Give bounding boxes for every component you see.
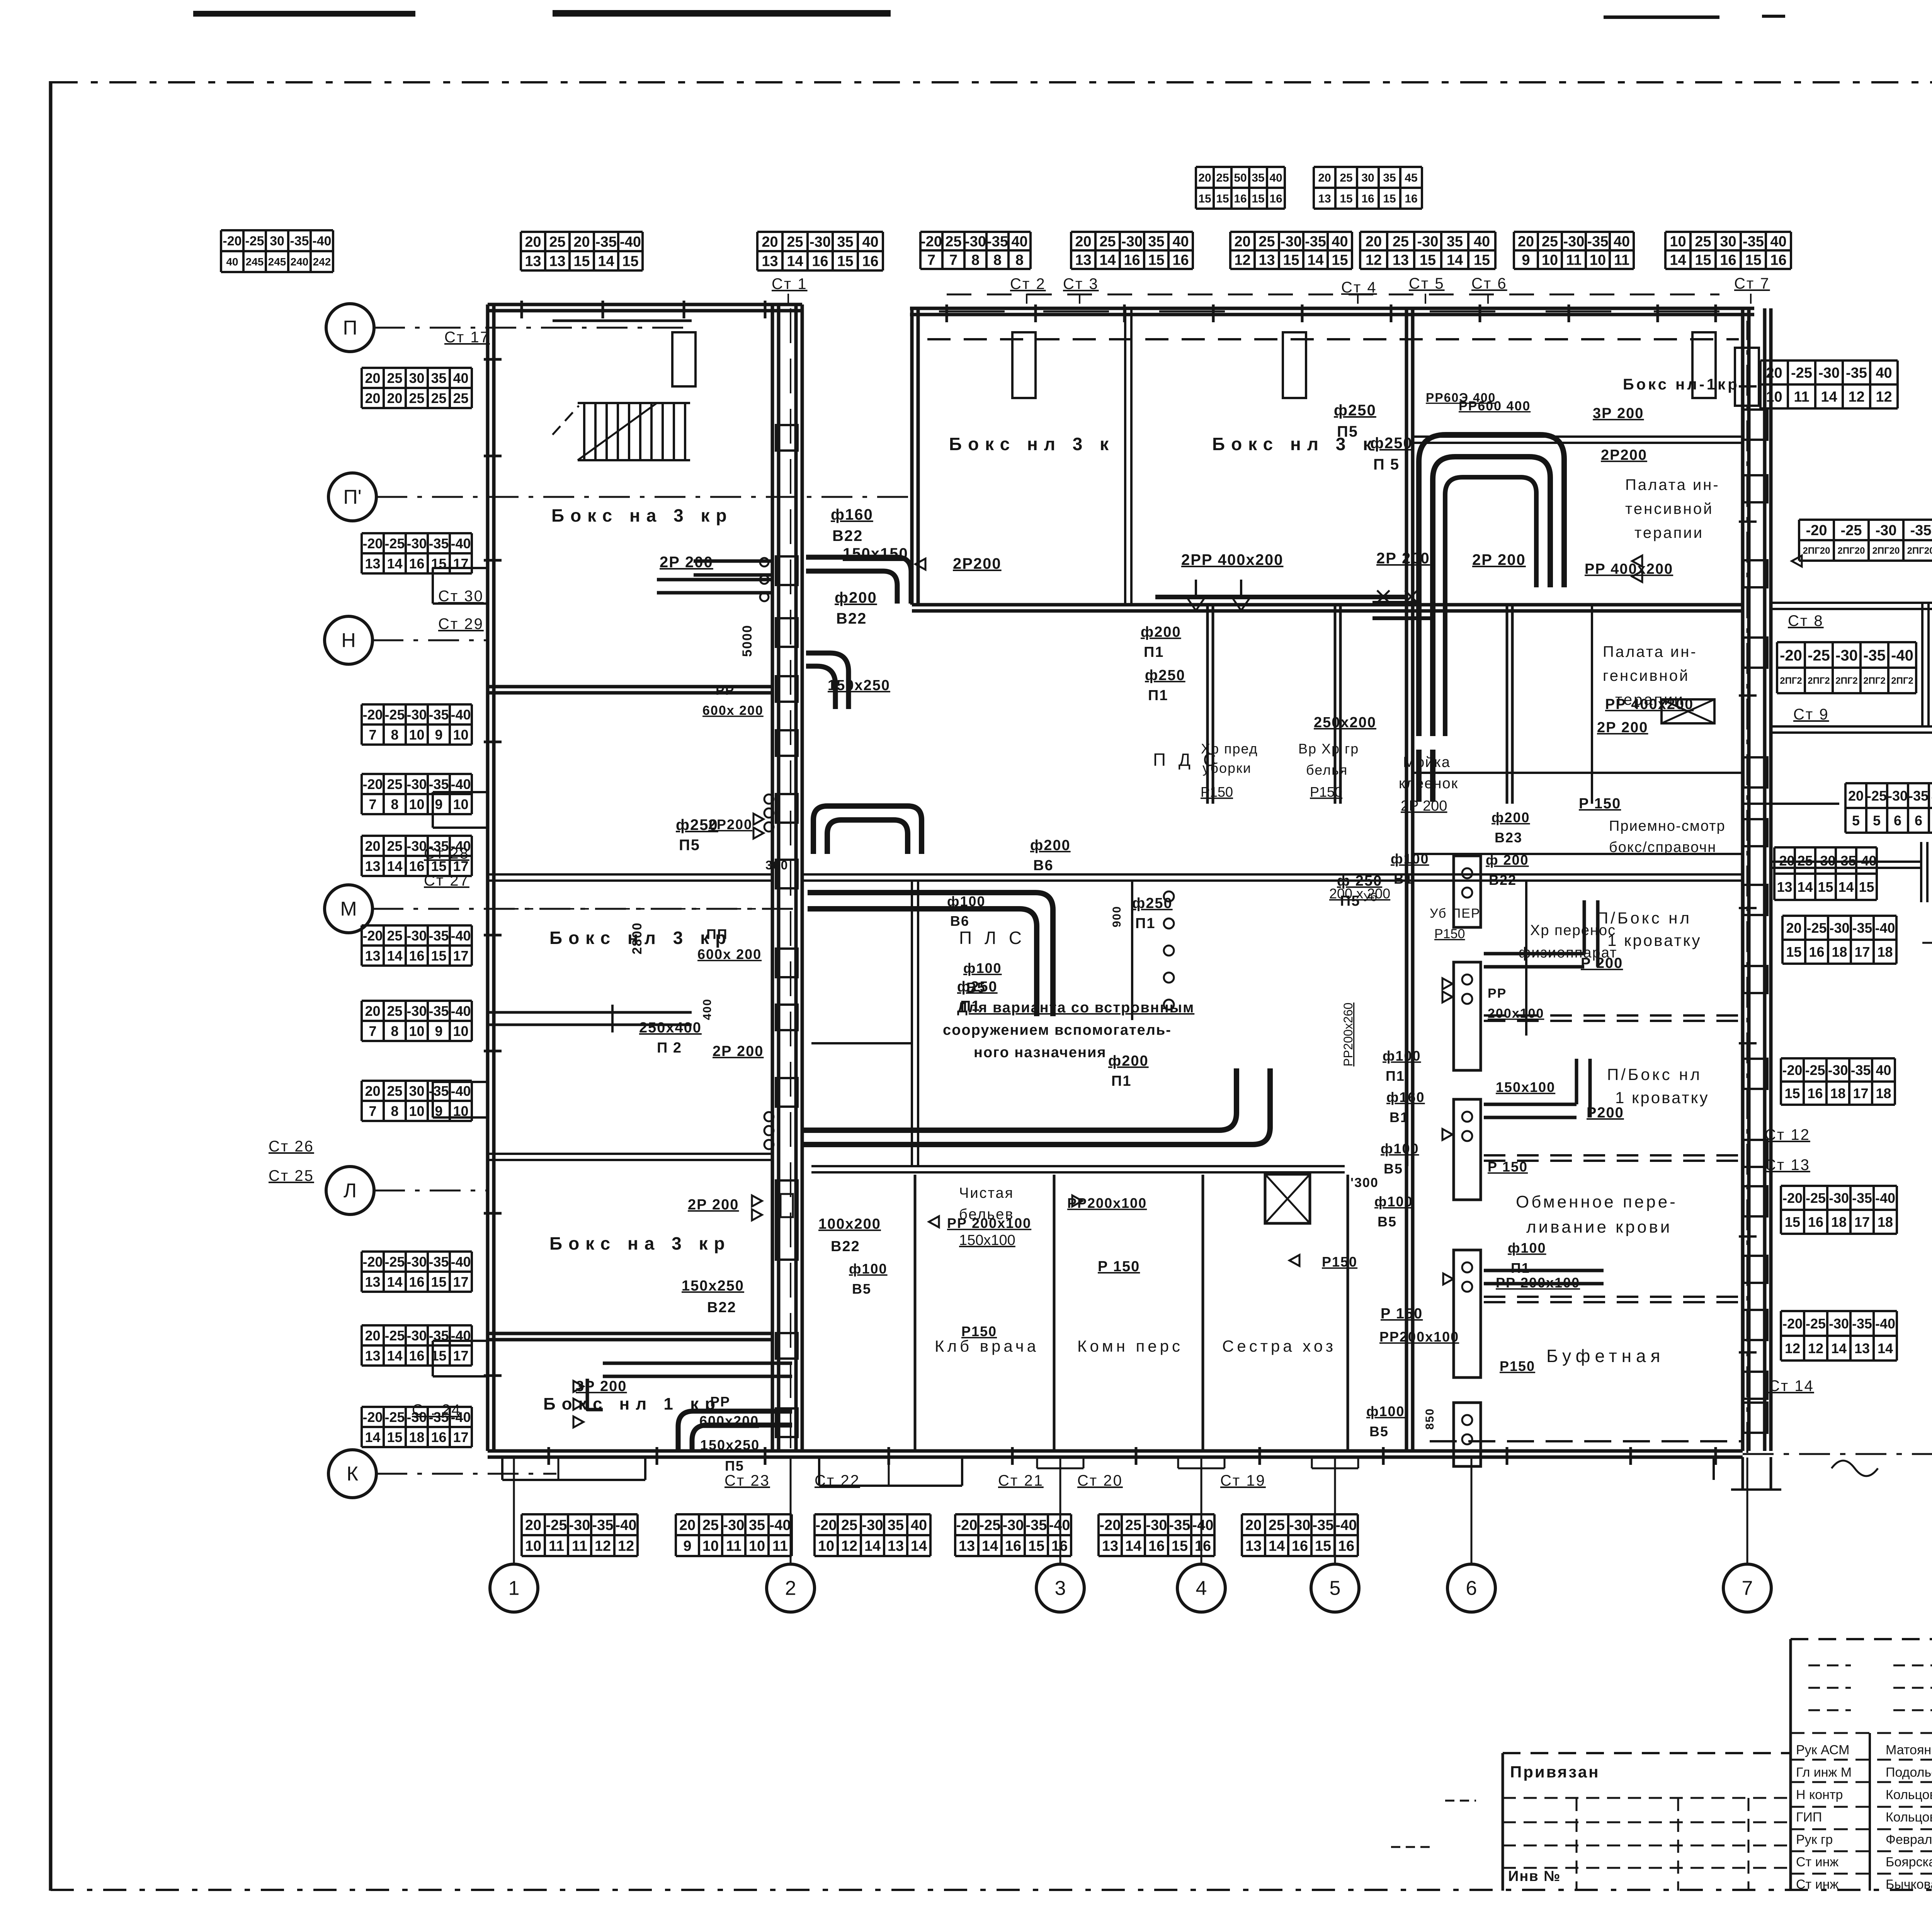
svg-text:П5: П5	[1340, 893, 1360, 909]
svg-text:2Р 200: 2Р 200	[713, 1043, 764, 1060]
svg-text:20: 20	[365, 838, 380, 854]
svg-text:терапии: терапии	[1634, 524, 1704, 541]
svg-text:25: 25	[409, 390, 424, 406]
svg-text:25: 25	[1340, 172, 1352, 184]
svg-text:-30: -30	[1121, 234, 1143, 250]
svg-text:-30: -30	[965, 234, 986, 250]
svg-text:20: 20	[1198, 172, 1211, 184]
svg-text:40: 40	[1172, 234, 1189, 250]
svg-text:16: 16	[409, 948, 424, 964]
svg-text:150х100: 150х100	[959, 1232, 1015, 1248]
svg-text:Уб: Уб	[1363, 891, 1377, 904]
svg-text:-20: -20	[1774, 853, 1794, 869]
svg-text:25: 25	[945, 234, 961, 250]
svg-text:250х400: 250х400	[639, 1020, 702, 1036]
svg-text:-40: -40	[1875, 920, 1895, 936]
svg-text:15: 15	[1786, 944, 1801, 960]
svg-text:14: 14	[982, 1538, 998, 1554]
svg-text:Комн перс: Комн перс	[1077, 1337, 1183, 1355]
svg-text:17: 17	[1853, 1085, 1868, 1101]
svg-text:11: 11	[1614, 252, 1629, 269]
svg-text:Ст 4: Ст 4	[1341, 279, 1377, 296]
svg-text:10: 10	[525, 1538, 541, 1554]
svg-text:РР 400х200: РР 400х200	[1605, 696, 1694, 713]
svg-text:35: 35	[1252, 172, 1264, 184]
svg-text:-30: -30	[1876, 522, 1897, 539]
svg-text:-35: -35	[987, 234, 1008, 250]
svg-text:25: 25	[1269, 1517, 1285, 1534]
svg-text:Р 150: Р 150	[1488, 1159, 1528, 1175]
svg-text:-40: -40	[620, 234, 641, 250]
svg-text:13: 13	[365, 1348, 380, 1364]
svg-text:Р150: Р150	[1434, 927, 1465, 941]
svg-text:Кольцова: Кольцова	[1886, 1787, 1932, 1802]
svg-text:ф200: ф200	[1108, 1053, 1149, 1069]
svg-text:-40: -40	[312, 234, 331, 248]
svg-text:900: 900	[1111, 906, 1123, 927]
svg-text:2ПГ20: 2ПГ20	[1803, 546, 1830, 556]
svg-text:Ст 3: Ст 3	[1063, 276, 1099, 293]
svg-text:-35: -35	[429, 928, 449, 944]
svg-text:25: 25	[1125, 1517, 1141, 1534]
svg-text:Ст 13: Ст 13	[1765, 1156, 1810, 1173]
svg-text:7: 7	[369, 1023, 376, 1039]
svg-text:600х 200: 600х 200	[702, 703, 764, 718]
svg-text:15: 15	[1332, 252, 1348, 269]
svg-text:ф100: ф100	[1508, 1240, 1546, 1256]
svg-text:-25: -25	[1841, 522, 1862, 539]
svg-text:белья: белья	[1306, 762, 1348, 778]
svg-text:-35: -35	[1587, 234, 1609, 250]
svg-text:8: 8	[993, 252, 1002, 269]
svg-text:25: 25	[1797, 853, 1813, 869]
svg-text:16: 16	[1809, 944, 1824, 960]
svg-text:бокс/справочн: бокс/справочн	[1609, 839, 1716, 855]
svg-text:-35: -35	[429, 776, 449, 792]
svg-text:Ст 29: Ст 29	[438, 616, 484, 633]
svg-text:18: 18	[409, 1429, 424, 1445]
svg-text:25: 25	[387, 776, 402, 792]
svg-text:14: 14	[1447, 252, 1463, 269]
svg-text:17: 17	[453, 556, 468, 571]
svg-text:20: 20	[1075, 234, 1091, 250]
svg-text:5: 5	[1852, 813, 1860, 828]
svg-text:13: 13	[549, 253, 565, 270]
svg-text:17: 17	[1854, 944, 1870, 960]
svg-text:Боярская: Боярская	[1886, 1855, 1932, 1869]
svg-text:14: 14	[1838, 879, 1854, 895]
svg-text:-40: -40	[1875, 1190, 1895, 1206]
svg-text:850: 850	[1423, 1408, 1436, 1430]
svg-text:Подольский: Подольский	[1886, 1765, 1932, 1780]
svg-text:13: 13	[1102, 1538, 1118, 1554]
svg-text:25: 25	[1216, 172, 1229, 184]
svg-text:Бокс нл 1 кр: Бокс нл 1 кр	[543, 1395, 721, 1413]
svg-text:15: 15	[431, 556, 446, 571]
svg-text:35: 35	[837, 234, 853, 250]
svg-text:-35: -35	[1846, 365, 1867, 381]
svg-text:-20: -20	[956, 1517, 978, 1534]
svg-text:Р 200: Р 200	[1581, 955, 1623, 971]
svg-text:-20: -20	[223, 234, 241, 248]
svg-text:Ст 26: Ст 26	[269, 1138, 314, 1155]
svg-text:25: 25	[387, 928, 402, 944]
svg-text:-30: -30	[1417, 234, 1439, 250]
svg-text:В1: В1	[1389, 1109, 1409, 1125]
svg-text:ф100: ф100	[1374, 1194, 1413, 1209]
svg-text:16: 16	[1338, 1538, 1354, 1554]
svg-text:-30: -30	[406, 776, 427, 792]
svg-text:-30: -30	[406, 1003, 427, 1019]
svg-text:П1: П1	[1148, 687, 1168, 704]
svg-text:13: 13	[888, 1538, 904, 1554]
svg-text:15: 15	[1198, 192, 1211, 205]
svg-text:ф200: ф200	[1141, 624, 1181, 640]
svg-text:15: 15	[1340, 192, 1352, 205]
svg-text:10: 10	[453, 796, 468, 812]
svg-text:14: 14	[787, 253, 803, 270]
svg-text:20: 20	[387, 390, 402, 406]
svg-text:2Р 200: 2Р 200	[1376, 550, 1430, 567]
svg-text:10: 10	[1766, 389, 1782, 405]
svg-text:Ст 28: Ст 28	[424, 845, 469, 862]
svg-text:10: 10	[453, 1023, 468, 1039]
svg-text:16: 16	[1005, 1538, 1021, 1554]
svg-text:-20: -20	[362, 536, 383, 551]
svg-text:6: 6	[1894, 813, 1901, 828]
svg-text:2ПГ2: 2ПГ2	[1891, 676, 1913, 686]
svg-text:7: 7	[369, 796, 376, 812]
svg-text:-35: -35	[429, 1083, 449, 1099]
svg-text:Бокс на 3 кр: Бокс на 3 кр	[551, 505, 733, 526]
svg-text:Н контр: Н контр	[1796, 1787, 1843, 1802]
svg-text:25: 25	[1259, 234, 1275, 250]
svg-text:13: 13	[365, 948, 380, 964]
svg-text:40: 40	[453, 370, 468, 386]
svg-text:-35: -35	[1743, 234, 1764, 250]
svg-text:-20: -20	[362, 707, 383, 723]
svg-text:Приемно-смотр: Приемно-смотр	[1609, 818, 1726, 834]
svg-text:3Р 200: 3Р 200	[1593, 405, 1644, 422]
svg-text:ф 250: ф 250	[1337, 873, 1382, 889]
svg-text:16: 16	[1051, 1538, 1068, 1554]
svg-text:13: 13	[1259, 252, 1275, 269]
svg-text:14: 14	[387, 948, 402, 964]
svg-text:Ст инж: Ст инж	[1796, 1877, 1838, 1892]
svg-text:Привязан: Привязан	[1510, 1763, 1600, 1781]
svg-text:4: 4	[1196, 1577, 1207, 1600]
svg-text:15: 15	[431, 1348, 446, 1364]
svg-text:40: 40	[911, 1517, 927, 1534]
svg-text:13: 13	[1777, 879, 1792, 895]
svg-text:Рук гр: Рук гр	[1796, 1832, 1833, 1847]
svg-text:Клб врача: Клб врача	[935, 1337, 1039, 1355]
svg-text:20: 20	[1234, 234, 1250, 250]
svg-text:18: 18	[1878, 1214, 1893, 1230]
svg-text:12: 12	[618, 1538, 634, 1554]
svg-text:15: 15	[431, 948, 446, 964]
svg-text:40: 40	[1876, 1062, 1891, 1078]
svg-text:Р 150: Р 150	[1381, 1306, 1423, 1322]
svg-text:13: 13	[365, 1274, 380, 1290]
svg-text:7: 7	[369, 727, 376, 743]
svg-text:15: 15	[1216, 192, 1229, 205]
svg-text:РР 200х100: РР 200х100	[1496, 1275, 1580, 1291]
svg-text:18: 18	[1830, 1085, 1845, 1101]
svg-text:В22: В22	[831, 1238, 860, 1255]
svg-text:ф100: ф100	[849, 1261, 888, 1277]
svg-text:-35: -35	[1305, 234, 1326, 250]
svg-text:3Р 200: 3Р 200	[576, 1378, 627, 1395]
svg-text:20: 20	[365, 390, 380, 406]
svg-text:16: 16	[409, 1274, 424, 1290]
svg-text:2ПГ20: 2ПГ20	[1872, 546, 1900, 556]
svg-text:25: 25	[1695, 234, 1711, 250]
svg-text:2Р 200: 2Р 200	[1401, 798, 1447, 814]
svg-text:16: 16	[1234, 192, 1247, 205]
svg-text:15: 15	[387, 1429, 402, 1445]
svg-text:50: 50	[1234, 172, 1247, 184]
svg-text:-35: -35	[1852, 1190, 1872, 1206]
svg-text:245: 245	[246, 256, 264, 268]
svg-text:П1: П1	[1144, 644, 1164, 660]
svg-text:-20: -20	[1100, 1517, 1121, 1534]
svg-text:Р150: Р150	[1322, 1254, 1357, 1270]
svg-text:К: К	[347, 1463, 358, 1485]
svg-text:Ст 25: Ст 25	[269, 1167, 314, 1184]
svg-text:35: 35	[1148, 234, 1164, 250]
svg-text:15: 15	[1252, 192, 1264, 205]
svg-text:11: 11	[1794, 389, 1809, 405]
svg-text:тенсивной: тенсивной	[1625, 500, 1713, 517]
svg-text:12: 12	[1876, 389, 1892, 405]
svg-text:П 5: П 5	[1373, 456, 1400, 473]
svg-text:35: 35	[1447, 234, 1463, 250]
svg-text:ф250: ф250	[1370, 435, 1413, 452]
svg-text:242: 242	[313, 256, 331, 268]
svg-text:-30: -30	[1281, 234, 1302, 250]
svg-text:11: 11	[1566, 252, 1582, 269]
svg-text:Обменное пере-: Обменное пере-	[1516, 1192, 1678, 1211]
svg-text:15: 15	[573, 253, 590, 270]
svg-text:-40: -40	[1192, 1517, 1214, 1534]
svg-text:-30: -30	[406, 707, 427, 723]
svg-text:-30: -30	[569, 1517, 590, 1534]
svg-text:Ст 12: Ст 12	[1765, 1126, 1810, 1143]
svg-text:1: 1	[509, 1577, 520, 1600]
svg-text:-20: -20	[1806, 522, 1827, 539]
svg-text:1 кроватку: 1 кроватку	[1607, 931, 1701, 949]
svg-text:25: 25	[387, 1003, 402, 1019]
svg-text:-25: -25	[1867, 788, 1887, 804]
svg-text:13: 13	[959, 1538, 975, 1554]
svg-text:2ПГ2: 2ПГ2	[1863, 676, 1886, 686]
svg-text:-30: -30	[406, 928, 427, 944]
svg-text:20: 20	[365, 1003, 380, 1019]
svg-text:-35: -35	[290, 234, 309, 248]
svg-text:16: 16	[409, 1348, 424, 1364]
svg-text:17: 17	[453, 1429, 468, 1445]
svg-text:15: 15	[1784, 1085, 1800, 1101]
svg-text:ПП: ПП	[706, 926, 728, 942]
svg-text:В5: В5	[852, 1281, 871, 1297]
svg-text:12: 12	[1234, 252, 1250, 269]
svg-text:2Р200: 2Р200	[1601, 447, 1647, 463]
svg-text:6: 6	[1466, 1577, 1477, 1600]
svg-text:-40: -40	[1856, 853, 1876, 869]
svg-text:Ст 30: Ст 30	[438, 588, 484, 605]
svg-text:П1: П1	[1511, 1260, 1530, 1276]
svg-text:12: 12	[841, 1538, 857, 1554]
svg-text:13: 13	[1245, 1538, 1262, 1554]
svg-text:7: 7	[369, 1103, 376, 1119]
svg-text:10: 10	[409, 1023, 424, 1039]
svg-text:Н: Н	[341, 629, 356, 652]
svg-text:9: 9	[1522, 252, 1530, 269]
svg-text:РР200х100: РР200х100	[1379, 1329, 1459, 1345]
svg-text:-25: -25	[384, 536, 405, 551]
svg-text:11: 11	[572, 1538, 587, 1554]
svg-text:13: 13	[365, 556, 380, 571]
svg-text:14: 14	[1099, 252, 1116, 269]
svg-text:25: 25	[387, 370, 402, 386]
svg-text:ф100: ф100	[947, 893, 986, 909]
svg-text:10: 10	[1590, 252, 1606, 269]
svg-text:П5: П5	[1337, 423, 1358, 440]
svg-text:14: 14	[387, 858, 402, 874]
svg-text:-35: -35	[1852, 920, 1872, 936]
svg-text:15: 15	[1420, 252, 1436, 269]
svg-text:Бокс на 3 кр: Бокс на 3 кр	[549, 1233, 731, 1253]
svg-text:30: 30	[1720, 234, 1736, 250]
svg-text:2Р200: 2Р200	[953, 555, 1002, 572]
svg-text:13: 13	[1854, 1340, 1870, 1356]
svg-text:-30: -30	[723, 1517, 745, 1534]
svg-text:1 кроватку: 1 кроватку	[1615, 1088, 1709, 1107]
svg-text:11: 11	[726, 1538, 742, 1554]
svg-text:Р150: Р150	[1201, 784, 1233, 800]
svg-text:-40: -40	[1336, 1517, 1357, 1534]
svg-text:-35: -35	[1313, 1517, 1334, 1534]
svg-text:16: 16	[1195, 1538, 1211, 1554]
svg-text:Ст 17: Ст 17	[444, 329, 490, 346]
svg-text:15: 15	[1859, 879, 1874, 895]
svg-text:35: 35	[749, 1517, 765, 1534]
svg-text:3: 3	[1055, 1577, 1066, 1600]
svg-text:15: 15	[431, 1274, 446, 1290]
svg-text:14: 14	[598, 253, 614, 270]
svg-text:-35: -35	[1863, 647, 1886, 664]
svg-text:ф100: ф100	[1391, 851, 1429, 867]
svg-text:13: 13	[525, 253, 541, 270]
svg-text:Ст 14: Ст 14	[1769, 1378, 1814, 1395]
svg-text:18: 18	[1877, 944, 1893, 960]
svg-text:40: 40	[226, 256, 238, 268]
svg-text:РР200х100: РР200х100	[1067, 1195, 1147, 1211]
svg-text:-25: -25	[384, 707, 405, 723]
svg-text:13: 13	[762, 253, 778, 270]
svg-text:16: 16	[1172, 252, 1189, 269]
svg-text:14: 14	[1821, 389, 1837, 405]
svg-text:-25: -25	[546, 1517, 567, 1534]
svg-text:11: 11	[549, 1538, 564, 1554]
svg-text:20: 20	[1848, 788, 1864, 804]
svg-text:10: 10	[409, 796, 424, 812]
svg-text:16: 16	[1148, 1538, 1165, 1554]
svg-text:11: 11	[772, 1538, 788, 1554]
svg-text:Ст 1: Ст 1	[772, 276, 808, 293]
svg-text:-25: -25	[245, 234, 264, 248]
svg-text:Р 150: Р 150	[1098, 1259, 1140, 1275]
svg-text:-30: -30	[862, 1517, 883, 1534]
svg-text:14: 14	[387, 1348, 402, 1364]
svg-text:-40: -40	[451, 1254, 471, 1270]
svg-text:20: 20	[1766, 365, 1782, 381]
svg-text:Ст 8: Ст 8	[1788, 612, 1824, 629]
svg-text:ф200: ф200	[835, 589, 877, 606]
svg-text:ф100: ф100	[963, 960, 1002, 976]
svg-text:-30: -30	[1289, 1517, 1311, 1534]
svg-text:14: 14	[1831, 1340, 1847, 1356]
svg-text:Ст 22: Ст 22	[815, 1472, 860, 1489]
svg-text:15: 15	[1172, 1538, 1188, 1554]
svg-text:250х200: 250х200	[1314, 714, 1376, 731]
svg-text:-40: -40	[451, 776, 471, 792]
svg-text:2Р 200: 2Р 200	[660, 554, 713, 571]
svg-text:Уб ПЕР: Уб ПЕР	[1430, 906, 1481, 921]
svg-text:16: 16	[1124, 252, 1140, 269]
svg-text:В22: В22	[832, 527, 863, 544]
svg-text:150х250: 150х250	[700, 1437, 760, 1453]
svg-text:9: 9	[683, 1538, 691, 1554]
svg-text:18: 18	[1832, 944, 1847, 960]
svg-text:15: 15	[1818, 879, 1833, 895]
svg-text:13: 13	[365, 858, 380, 874]
svg-text:Мойка: Мойка	[1403, 754, 1451, 770]
svg-text:-30: -30	[1563, 234, 1585, 250]
svg-text:ф250: ф250	[1132, 895, 1173, 912]
svg-text:ф 200: ф 200	[1486, 852, 1529, 868]
svg-text:9: 9	[435, 1023, 442, 1039]
svg-text:-30: -30	[1828, 1062, 1848, 1078]
svg-text:16: 16	[1808, 1214, 1823, 1230]
svg-text:10: 10	[702, 1538, 719, 1554]
svg-text:-35: -35	[1852, 1316, 1872, 1332]
svg-text:15: 15	[1148, 252, 1164, 269]
svg-text:-20: -20	[1782, 1316, 1803, 1332]
svg-text:-40: -40	[451, 1083, 471, 1099]
svg-text:20: 20	[365, 370, 380, 386]
svg-text:П/Бокс нл: П/Бокс нл	[1607, 1065, 1702, 1083]
svg-text:14: 14	[911, 1538, 927, 1554]
svg-text:20: 20	[525, 1517, 541, 1534]
svg-text:Сестра хоз: Сестра хоз	[1222, 1337, 1336, 1355]
svg-text:8: 8	[391, 1023, 398, 1039]
svg-text:240: 240	[291, 256, 309, 268]
svg-text:-30: -30	[1829, 1190, 1849, 1206]
svg-text:8: 8	[1015, 252, 1024, 269]
svg-text:уборки: уборки	[1202, 760, 1252, 776]
svg-text:16: 16	[1292, 1538, 1308, 1554]
svg-text:-25: -25	[384, 1409, 405, 1425]
svg-text:Бычкова: Бычкова	[1886, 1877, 1932, 1892]
svg-text:-40: -40	[616, 1517, 637, 1534]
svg-text:П Л С: П Л С	[959, 928, 1026, 948]
svg-text:Буфетная: Буфетная	[1546, 1346, 1665, 1366]
svg-text:300: 300	[765, 858, 788, 872]
svg-text:-30: -30	[406, 1254, 427, 1270]
svg-text:8: 8	[391, 1103, 398, 1119]
